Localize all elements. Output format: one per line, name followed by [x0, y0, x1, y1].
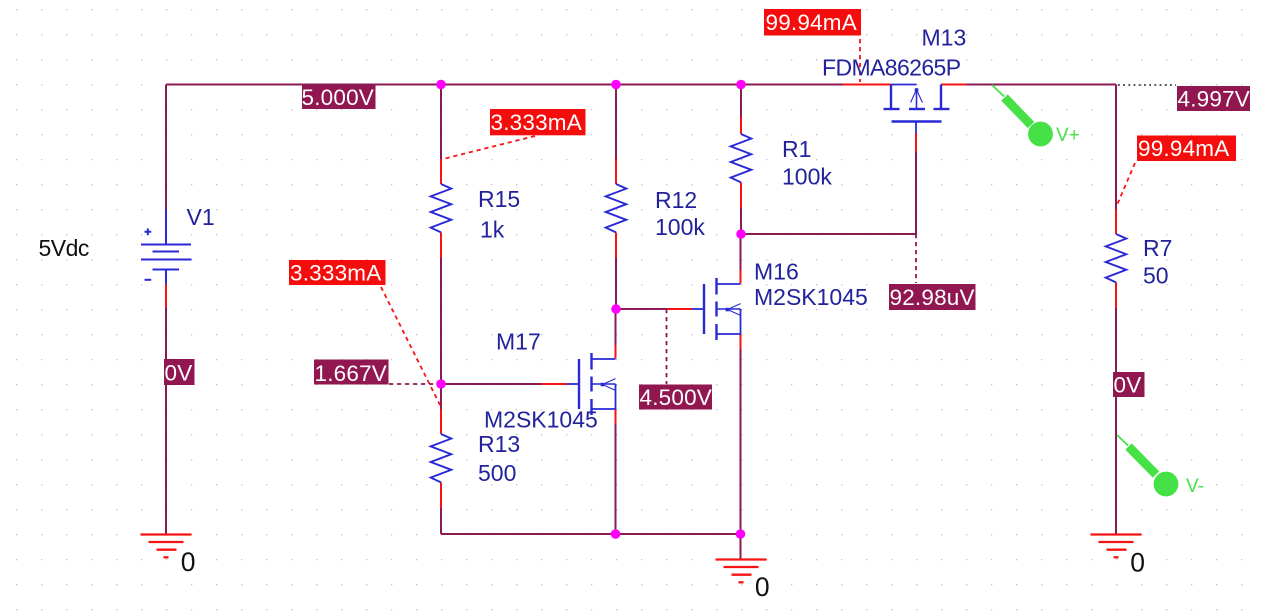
svg-text:0: 0	[755, 572, 770, 602]
svg-text:M17: M17	[496, 329, 541, 355]
svg-text:V1: V1	[187, 204, 215, 230]
svg-text:FDMA86265P: FDMA86265P	[822, 55, 961, 81]
svg-text:M2SK1045: M2SK1045	[484, 407, 598, 433]
svg-text:M13: M13	[922, 25, 967, 51]
svg-text:500: 500	[478, 460, 516, 486]
svg-text:0V: 0V	[1114, 373, 1142, 398]
svg-text:0: 0	[1130, 548, 1145, 578]
svg-text:50: 50	[1143, 263, 1169, 289]
svg-text:R15: R15	[478, 186, 520, 212]
svg-text:4.997V: 4.997V	[1178, 87, 1251, 112]
svg-text:5.000V: 5.000V	[302, 85, 375, 110]
svg-text:R7: R7	[1143, 235, 1172, 261]
svg-text:V-: V-	[1186, 476, 1204, 497]
svg-text:M2SK1045: M2SK1045	[754, 284, 868, 310]
svg-text:1k: 1k	[480, 217, 505, 243]
svg-text:3.333mA: 3.333mA	[491, 110, 582, 135]
svg-text:100k: 100k	[655, 214, 705, 240]
svg-text:V+: V+	[1056, 125, 1080, 146]
svg-text:99.94mA: 99.94mA	[1138, 136, 1229, 161]
svg-text:3.333mA: 3.333mA	[290, 261, 381, 286]
svg-text:R13: R13	[478, 431, 520, 457]
svg-text:100k: 100k	[782, 164, 832, 190]
svg-text:R12: R12	[655, 187, 697, 213]
svg-text:5Vdc: 5Vdc	[39, 235, 89, 261]
svg-text:1.667V: 1.667V	[315, 361, 388, 386]
svg-text:99.94mA: 99.94mA	[766, 10, 857, 35]
svg-text:0: 0	[181, 547, 196, 577]
svg-text:0V: 0V	[165, 361, 193, 386]
svg-text:R1: R1	[782, 136, 811, 162]
svg-text:M16: M16	[754, 259, 799, 285]
svg-text:92.98uV: 92.98uV	[890, 285, 975, 310]
svg-text:4.500V: 4.500V	[640, 385, 713, 410]
